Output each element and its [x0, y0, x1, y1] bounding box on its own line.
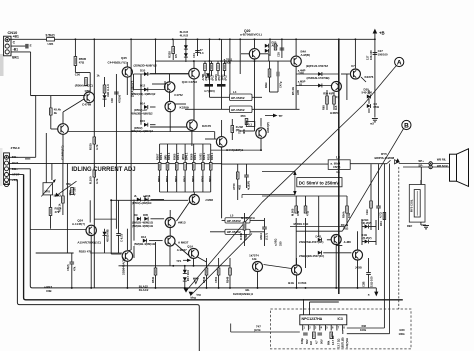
wire bus x296 B4A: [295, 39, 297, 56]
wire col x62.9: [62, 163, 64, 215]
wire coil top: [420, 180, 422, 185]
transistor Q23 K2276: [350, 69, 360, 79]
svg-text:(5M)1B-4(0M)1Ω: (5M)1B-4(0M)1Ω: [132, 220, 154, 224]
wire A7M1 col: [204, 61, 206, 63]
svg-text:R509: R509: [190, 153, 194, 160]
diode D10: [144, 72, 148, 76]
wire h200: [111, 199, 188, 201]
capacitor C90: [303, 332, 308, 334]
wire pin2 OUT to output line: [9, 162, 221, 164]
svg-text:RY5 COIL: RY5 COIL: [410, 199, 414, 212]
wire 3P01 col: [224, 61, 226, 63]
wire col R181: [210, 144, 212, 163]
wire q24 vert: [90, 236, 92, 288]
border wire1: [24, 175, 403, 300]
wire h265: [119, 265, 231, 267]
svg-text:C40: C40: [110, 98, 114, 103]
wire ic feeds: [231, 331, 300, 333]
svg-text:J M08: J M08: [205, 198, 213, 202]
resistor R543: [304, 206, 307, 213]
diode D15: [144, 123, 148, 127]
wire bus x256 Q20: [254, 39, 256, 48]
wire d3031: [368, 90, 370, 94]
svg-text:(R50#): (R50#): [134, 126, 142, 130]
dot h61 d: [254, 60, 256, 62]
wire bus x173: [172, 39, 174, 60]
svg-text:R05: R05: [143, 213, 149, 217]
connector CN input: [4, 146, 20, 187]
wire h144: [160, 143, 211, 145]
resistor 3P01: [223, 64, 226, 71]
svg-text:46N(1B)-4(9B/3)2: 46N(1B)-4(9B/3)2: [131, 129, 153, 133]
wire h253b: [36, 252, 74, 254]
svg-text:A05: A05: [296, 89, 300, 95]
resistor R73: [62, 196, 65, 203]
wire dio rows: [151, 199, 165, 201]
wire bus x116: [115, 74, 117, 229]
wire bus x209: [209, 39, 211, 97]
svg-text:R505: R505: [173, 153, 177, 160]
svg-text:E: E: [30, 44, 32, 48]
svg-text:R549: R549: [226, 276, 230, 283]
svg-text:47/100: 47/100: [118, 94, 122, 103]
wire col 4P01: [184, 144, 186, 163]
svg-text:R65: R65: [322, 105, 326, 110]
resistor R514: [49, 208, 52, 216]
svg-text:45N(3B)-4(98/3)2: 45N(3B)-4(98/3)2: [131, 112, 153, 116]
svg-text:C47µ: C47µ: [279, 81, 283, 88]
svg-text:W8 RIL: W8 RIL: [437, 158, 447, 162]
wire r516: [104, 77, 106, 85]
svg-text:C4752: C4752: [174, 93, 183, 97]
diode D21 top: [184, 45, 188, 49]
wire CN10 pin3: [11, 51, 30, 53]
rail junction: [355, 38, 357, 40]
resistor R50A: [231, 126, 234, 133]
rail junction: [93, 38, 95, 40]
leader line to A: [186, 66, 396, 291]
svg-text:DC 50mV to 250mV: DC 50mV to 250mV: [299, 180, 339, 185]
scan smudge left edge 2: [0, 148, 3, 186]
wire Q45 col: [126, 62, 128, 67]
capacitor C36b: [276, 72, 278, 77]
svg-text:R.550: R.550: [89, 176, 93, 184]
wire h95: [31, 95, 86, 97]
wire r544: [346, 196, 348, 206]
svg-text:R73 1k: R73 1k: [58, 203, 62, 212]
relay coil RY5: [409, 185, 425, 223]
svg-text:C5(2): C5(2): [66, 264, 70, 271]
svg-text:13.7 2Ω: 13.7 2Ω: [337, 339, 341, 348]
svg-text:8P61: 8P61: [191, 175, 195, 182]
svg-text:C2Ω: C2Ω: [365, 210, 369, 215]
svg-text:2SN(1B)-4(9B/3)2: 2SN(1B)-4(9B/3)2: [132, 92, 156, 96]
resistor R546 low: [205, 268, 208, 275]
capacitor C41 box: [246, 122, 255, 127]
svg-text:4.7: 4.7: [314, 340, 318, 344]
wire Q20 base: [241, 53, 249, 55]
wire h196: [262, 195, 347, 197]
svg-text:8P61: 8P61: [183, 175, 187, 182]
svg-text:R.509: R.509: [239, 232, 243, 240]
transistor Q49 C4752: [165, 82, 175, 92]
diode D81: [365, 240, 369, 244]
wire r50a: [231, 119, 233, 126]
svg-text:(5M)1B-4(0M)1Ω: (5M)1B-4(0M)1Ω: [134, 242, 156, 246]
capacitor C27: [373, 52, 378, 54]
svg-text:C551: C551: [214, 276, 218, 283]
ground G2: [423, 225, 429, 227]
wire h219: [94, 218, 116, 220]
svg-text:8P61: 8P61: [208, 175, 212, 182]
resistor R46b: [268, 69, 271, 77]
svg-text:10Ω: 10Ω: [343, 227, 349, 231]
svg-text:+B: +B: [379, 31, 385, 36]
diode D13: [103, 95, 107, 99]
diode D50: [103, 232, 107, 236]
svg-text:43Ω4: 43Ω4: [259, 233, 263, 240]
inductor L8: [328, 160, 350, 170]
rail junction: [239, 38, 241, 40]
svg-text:50V: 50V: [305, 339, 309, 344]
svg-text:(2SR1/B-U5073B): (2SR1/B-U5073B): [307, 76, 330, 80]
IC3 top pins: [303, 299, 305, 315]
transistor Q29 Q1A: [189, 248, 199, 258]
diode D26: [265, 49, 269, 53]
wire Q45 emit: [126, 77, 128, 95]
capacitor C91: [317, 332, 322, 334]
wire R515 col: [217, 61, 219, 63]
resistor R509 col: [192, 163, 195, 171]
svg-text:R507: R507: [155, 153, 159, 160]
svg-text:R0#A: R0#A: [341, 211, 345, 218]
svg-text:R520: R520: [89, 143, 93, 150]
diode D80: [365, 225, 369, 229]
thermal sw: [194, 278, 199, 283]
svg-text:TP: TP: [279, 114, 283, 118]
svg-text:8P61: 8P61: [174, 175, 178, 182]
wire h74 right: [296, 73, 339, 75]
svg-text:(P1): (P1): [224, 75, 228, 80]
wire q25: [126, 229, 128, 250]
wire hp links: [210, 96, 230, 98]
svg-text:TP1: TP1: [176, 259, 182, 263]
wire CN10 pin2: [11, 45, 27, 47]
-B arrow: [375, 288, 377, 292]
dim ref lines: [262, 171, 295, 173]
svg-text:0.1: 0.1: [248, 122, 252, 126]
capacitor C42: [244, 174, 249, 176]
svg-text:R20: R20: [400, 328, 406, 332]
diode row dark b: [217, 84, 226, 87]
resistor R516: [103, 85, 106, 93]
svg-text:U7: U7: [351, 64, 355, 68]
resistor R545: [370, 201, 373, 208]
resistor R521: [93, 170, 96, 177]
svg-text:BRP/S-112DM: BRP/S-112DM: [375, 156, 395, 160]
svg-text:2SD/2SB-4507(3C): 2SD/2SB-4507(3C): [299, 240, 323, 244]
rail junction: [254, 38, 256, 40]
transistor Q31: [353, 250, 363, 260]
wire stack: [193, 192, 195, 195]
svg-text:A933(P): A933(P): [266, 122, 270, 133]
resistor R530: [245, 119, 248, 125]
resistor R310: [383, 213, 386, 220]
dim arrow: [294, 172, 296, 195]
transistor Q21 B4A: [291, 56, 301, 66]
svg-text:W8 SCR: W8 SCR: [437, 164, 448, 168]
svg-text:U0B: U0B: [46, 289, 52, 293]
svg-text:±B(T): ±B(T): [333, 165, 340, 169]
resistor (0R) col: [166, 163, 169, 171]
svg-text:2SB(1)B8-4507(3C): 2SB(1)B8-4507(3C): [299, 254, 324, 258]
arrow TP1: [183, 259, 187, 261]
svg-text:(2SN)3D-4(98/Y)2: (2SN)3D-4(98/Y)2: [134, 64, 158, 68]
wire h133: [68, 131, 214, 133]
dot h265a: [172, 265, 174, 267]
svg-text:A: A: [397, 59, 402, 66]
resistor R50C: [85, 78, 88, 86]
svg-text:127: 127: [366, 55, 370, 60]
wire 4P11 col: [211, 61, 213, 63]
wire h228: [30, 228, 86, 230]
svg-text:C35: C35: [276, 52, 280, 57]
resistor R71: [71, 188, 74, 195]
wire bus x46.3: [45, 133, 47, 183]
diode D65: [183, 277, 187, 281]
svg-text:BK1: BK1: [12, 56, 19, 60]
wire h85 right: [296, 85, 331, 87]
transistor Q51 K2170: [187, 120, 198, 131]
svg-text:R5 4Ω: R5 4Ω: [291, 86, 295, 95]
wire a933: [240, 130, 255, 132]
svg-text:L8: L8: [336, 156, 340, 160]
wire c55: [71, 253, 73, 262]
transistor Q45: [122, 67, 132, 77]
wire rb cluster: [295, 218, 297, 265]
svg-text:R50 40P: R50 40P: [323, 92, 333, 96]
label DC box: [297, 178, 342, 187]
svg-text:8P61: 8P61: [200, 175, 204, 182]
svg-text:+B1: +B1: [13, 35, 19, 39]
wire dio ladder: [140, 74, 142, 125]
tag arrows: [184, 288, 189, 292]
transistor Q20: [249, 49, 259, 59]
svg-text:1k: 1k: [97, 74, 101, 78]
svg-text:4(5-25V): 4(5-25V): [361, 236, 371, 240]
diode pair D62: [137, 217, 141, 221]
svg-text:(R50#)+(0M)1Ω: (R50#)+(0M)1Ω: [132, 201, 152, 205]
svg-text:U5: U5: [174, 54, 178, 58]
wire c444: [205, 138, 216, 140]
wire K2276 links: [341, 73, 350, 75]
dot h200: [110, 199, 112, 201]
wire C1845 e: [62, 134, 64, 163]
border wire2: [17, 180, 199, 351]
inductor L4 HP-05452: [230, 94, 253, 101]
svg-text:330: 330: [279, 241, 283, 246]
wire bus x111: [110, 200, 112, 254]
wire mid col a: [155, 242, 157, 258]
svg-text:100/100: 100/100: [378, 52, 388, 56]
svg-text:R320: R320: [167, 51, 171, 58]
wire pin1 to x35.7: [9, 156, 35, 158]
diode D12: [144, 88, 148, 92]
resistor R549 low: [229, 268, 232, 275]
svg-text:R546: R546: [202, 276, 206, 283]
wire bus x186: [185, 39, 187, 62]
dashed box IC: [270, 309, 411, 349]
svg-text:B: B: [404, 122, 409, 129]
resistor R50B: [74, 57, 77, 66]
wire relay feed x389 to IC: [389, 164, 391, 334]
svg-text:15k: 15k: [66, 182, 71, 186]
wire rb cols: [295, 196, 297, 206]
svg-text:D17 1N4: D17 1N4: [186, 270, 190, 281]
terminator E pin2: [25, 44, 28, 49]
resistor R66: [333, 96, 336, 104]
wire bus x240: [239, 39, 241, 74]
leader line B lower: [191, 234, 253, 296]
svg-text:4.7(2R0): 4.7(2R0): [204, 89, 215, 93]
resistor R47: [274, 44, 276, 50]
wire bus x197: [197, 39, 199, 56]
diode D71: [318, 251, 322, 255]
wire R549 low: [229, 258, 231, 268]
svg-text:(5M)1B-4(0M)1Ω: (5M)1B-4(0M)1Ω: [132, 224, 154, 228]
svg-text:100k: 100k: [360, 328, 367, 332]
svg-text:(0R): (0R): [163, 155, 167, 160]
transistor Q47 C1845: [58, 124, 69, 135]
wire bus x374 to gnd: [374, 39, 376, 117]
resistor C551 low: [217, 268, 220, 275]
rail junction: [130, 38, 132, 40]
wire h226: [290, 226, 345, 228]
resistor 4P11: [210, 64, 213, 71]
IC3 pins: [302, 325, 304, 331]
wire -B rail: [30, 169, 376, 288]
transistor Q26 JM13: [165, 218, 175, 228]
wire col x67.4: [66, 163, 68, 253]
svg-text:H45Pb: H45Pb: [330, 111, 339, 115]
svg-text:R53: R53: [241, 114, 246, 118]
inductor L4b HP-05452: [230, 106, 253, 113]
rail junction: [219, 38, 221, 40]
svg-text:15Ω-100: 15Ω-100: [370, 276, 374, 287]
wire pot: [51, 163, 53, 180]
svg-text:C4445(BL/Y)1: C4445(BL/Y)1: [108, 60, 128, 64]
svg-text:4.7k: 4.7k: [95, 144, 99, 150]
wire bus x254 down: [254, 61, 256, 131]
wire col R505: [176, 144, 178, 163]
capacitor C31 top: [195, 50, 200, 52]
svg-text:IDLING CURRENT ADJ: IDLING CURRENT ADJ: [72, 167, 136, 173]
dot h61 b: [209, 60, 211, 62]
svg-text:R181: R181: [207, 153, 211, 160]
capacitor C50: [116, 233, 121, 235]
idling annotation arrow: [58, 181, 77, 195]
resistor R181 col: [209, 163, 212, 171]
wire col 0.501: [202, 144, 204, 163]
svg-text:45Ω: 45Ω: [68, 190, 72, 196]
transistor Q22 B20: [331, 81, 341, 91]
wire R546 low: [206, 258, 208, 268]
resistor R536: [243, 222, 246, 230]
svg-text:C1845(1E): C1845(1E): [61, 145, 65, 160]
svg-text:R525 470: R525 470: [79, 250, 92, 254]
svg-text:47Ω: 47Ω: [305, 211, 309, 216]
svg-text:R31: R31: [379, 221, 383, 226]
svg-text:4TM-II: 4TM-II: [11, 146, 20, 150]
svg-text:A M637: A M637: [177, 248, 187, 252]
wire pin3 to -B corner: [9, 168, 30, 170]
relay contact: [387, 160, 391, 163]
diode D64: [183, 270, 187, 274]
potentiometer VR50 idling: [43, 183, 53, 195]
svg-text:8P61: 8P61: [165, 175, 169, 182]
wire r46 col: [269, 61, 271, 69]
svg-text:4.7k: 4.7k: [95, 178, 99, 184]
wire r533: [237, 164, 239, 172]
svg-text:4(1E/F): 4(1E/F): [247, 181, 251, 190]
wire bus x221: [221, 39, 223, 109]
transistor Q33 U7574: [253, 262, 263, 272]
wire bus x339 main right: [338, 39, 340, 294]
wire bus x230: [229, 39, 231, 94]
svg-text:2L: 2L: [134, 194, 137, 198]
svg-text:1k7574: 1k7574: [249, 254, 259, 258]
wire relay feed x384 to IC: [383, 164, 385, 329]
svg-text:4.1: 4.1: [336, 170, 340, 174]
connector sp1: [429, 162, 432, 165]
svg-text:C4793: C4793: [298, 281, 307, 285]
diode D14: [144, 105, 148, 109]
svg-text:8P61: 8P61: [157, 175, 161, 182]
IC3 NPC1237HA: [300, 315, 347, 325]
svg-text:L4: L4: [233, 90, 237, 94]
svg-text:50(-26V): 50(-26V): [361, 221, 371, 225]
wire hp2 links: [222, 219, 225, 221]
svg-text:47k: 47k: [73, 266, 77, 271]
svg-text:50V: 50V: [319, 339, 323, 344]
svg-text:a.RK7: a.RK7: [44, 285, 53, 289]
wire mid col b: [144, 196, 146, 200]
wire c50: [118, 200, 120, 233]
wire h253: [90, 252, 122, 254]
diode D29: [318, 84, 322, 88]
wire r536: [244, 213, 246, 222]
wire bus x35.7 down: [35, 96, 37, 158]
svg-text:K2170: K2170: [202, 124, 211, 128]
transistor Q25 B649A: [122, 251, 132, 261]
wire bus x155: [155, 39, 157, 74]
svg-text:NPC1237HA: NPC1237HA: [302, 317, 323, 321]
svg-text:100p: 100p: [300, 338, 304, 344]
resistor R90: [313, 332, 316, 339]
wire output line: [222, 163, 329, 165]
wire c17: [264, 218, 266, 227]
wire q cluster: [150, 73, 189, 75]
wire h61: [155, 60, 291, 62]
wire d50: [104, 229, 106, 232]
svg-text:SP+: SP+: [418, 159, 424, 163]
svg-text:a: a: [368, 292, 370, 296]
wire h89: [134, 89, 166, 91]
connector sp2: [429, 165, 432, 168]
wire r514: [50, 195, 52, 208]
svg-text:4L/U2: 4L/U2: [180, 34, 189, 38]
rail junction: [185, 38, 187, 40]
